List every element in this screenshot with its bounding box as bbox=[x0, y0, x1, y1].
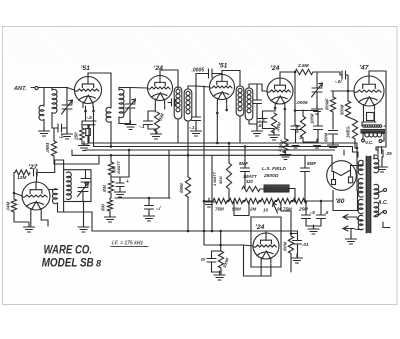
tube V5 '47 bbox=[354, 76, 384, 110]
wire 80 plate b bbox=[351, 161, 364, 177]
junction grid V5 bbox=[347, 90, 350, 93]
wire grid row left bbox=[14, 173, 15, 198]
coil L2 primary bbox=[106, 107, 111, 122]
svg-text:/00M: /00M bbox=[179, 183, 184, 194]
resistor 1MEG bbox=[352, 120, 357, 139]
svg-text:’51: ’51 bbox=[218, 63, 228, 70]
wire AVC top bbox=[53, 128, 55, 141]
svg-text:ANT.: ANT. bbox=[13, 86, 27, 92]
svg-text:8MF: 8MF bbox=[239, 161, 248, 166]
wire V4 plate bbox=[280, 72, 295, 78]
wire divider left end bbox=[204, 200, 213, 202]
wire 50M det bbox=[302, 110, 304, 116]
svg-text:2.5M: 2.5M bbox=[297, 63, 310, 69]
wire AC cord exit bbox=[383, 222, 390, 228]
wire osc varcap down bbox=[82, 192, 84, 202]
wire otp right bbox=[384, 125, 386, 127]
transformer PT core bbox=[366, 156, 371, 233]
tube V6 '27 bbox=[22, 182, 50, 214]
svg-text:-./: -./ bbox=[156, 206, 161, 212]
svg-text:.5: .5 bbox=[325, 210, 329, 215]
svg-text:-.5: -.5 bbox=[87, 115, 93, 120]
resistor 1WATT 50M bbox=[226, 163, 231, 189]
svg-text:/00M: /00M bbox=[283, 241, 288, 252]
svg-text:-.0/: -.0/ bbox=[335, 79, 342, 84]
svg-text:/00MF: /00MF bbox=[325, 98, 330, 111]
wire IF grid cap bbox=[195, 86, 197, 117]
svg-text:I.F. = 175 kHz: I.F. = 175 kHz bbox=[112, 241, 143, 247]
svg-text:’24: ’24 bbox=[154, 65, 164, 72]
filament arrow b bbox=[343, 226, 348, 231]
tube V4 '24 bbox=[267, 78, 293, 108]
wire bus B5 bbox=[89, 142, 357, 144]
coil PT sec HV b bbox=[358, 178, 363, 197]
wire IFT1 sec top bbox=[188, 86, 196, 89]
tube V2 '24 bbox=[148, 76, 173, 105]
capacitor 100M grid bbox=[329, 131, 338, 135]
wire 10M top bbox=[110, 155, 112, 162]
resistor 75M divider bbox=[213, 198, 227, 203]
ground .1 mid bbox=[144, 212, 155, 221]
wire IFT2 sec bot bbox=[249, 120, 257, 124]
wire cap bottom V1 bbox=[88, 125, 90, 143]
wire osc bottom link bbox=[58, 203, 93, 212]
capacitor box cath V5 bbox=[367, 113, 375, 121]
ground divider bbox=[204, 198, 215, 207]
ground C2 bbox=[125, 121, 136, 130]
resistor 75M divider2 bbox=[277, 198, 291, 203]
wire V2 bias bbox=[148, 111, 155, 121]
svg-text:A.C.: A.C. bbox=[377, 200, 388, 206]
wire mid rail 198 bbox=[115, 197, 170, 199]
svg-text:2M: 2M bbox=[249, 207, 257, 212]
wire V3 plate bbox=[222, 71, 240, 87]
capacitor -.1 V2 bbox=[144, 121, 153, 125]
ground det tank bbox=[312, 105, 323, 114]
svg-text:75M: 75M bbox=[215, 207, 224, 212]
ground varcap C1 bbox=[62, 130, 73, 139]
tube V7 '24 bbox=[253, 233, 279, 263]
capacitor bypass box V1 bbox=[86, 129, 91, 136]
ground det caps bbox=[312, 139, 323, 148]
filament lead b bbox=[354, 229, 363, 230]
coil osc primary bbox=[53, 189, 58, 204]
wire V7 legs bbox=[260, 263, 262, 276]
wire 8mf b bbox=[304, 155, 306, 168]
wire .0005 link bbox=[196, 73, 209, 75]
ground .25 output bbox=[377, 163, 388, 172]
ground det bypass bbox=[290, 139, 301, 148]
capacitor .0005 osc coupling bbox=[209, 69, 213, 78]
wire V6 cathode legs bbox=[30, 214, 32, 227]
svg-text:M: M bbox=[277, 207, 281, 212]
wire wiper feed bbox=[281, 204, 291, 236]
capacitor IFT1 tune bbox=[172, 99, 176, 106]
wire AVC bottom bbox=[54, 155, 99, 164]
filament arrow a bbox=[343, 215, 348, 220]
wire coupling in bbox=[340, 74, 342, 76]
coil IFT2 secondary bbox=[245, 88, 253, 120]
svg-text:MODEL SB: MODEL SB bbox=[42, 258, 94, 270]
wire bus B2 bbox=[94, 146, 353, 148]
resistor 100M V7 bbox=[288, 236, 293, 253]
variable capacitor C3 osc bbox=[78, 183, 89, 197]
wiper arrow divider bbox=[273, 203, 278, 213]
coil PT sec HV a bbox=[358, 160, 363, 175]
svg-text:.0005: .0005 bbox=[192, 68, 205, 74]
svg-text:2500Ω: 2500Ω bbox=[263, 173, 279, 179]
resistor 500M grid bbox=[345, 101, 350, 117]
wire L1 sec bottom bbox=[52, 113, 58, 129]
capacitor -.5 V4 bbox=[258, 119, 267, 123]
resistor .40M V4 bbox=[271, 113, 276, 133]
svg-text:8MF: 8MF bbox=[307, 161, 316, 166]
wire 80 base link bbox=[330, 200, 333, 202]
resistor 100M mid bbox=[185, 177, 190, 197]
coil PT prim b bbox=[374, 184, 379, 199]
resistor 2M divider bbox=[245, 198, 259, 203]
wire V4 cathode legs bbox=[274, 108, 276, 111]
svg-text:.1: .1 bbox=[59, 134, 63, 140]
junction div3 bbox=[259, 200, 262, 203]
wire bus B4 bbox=[72, 154, 332, 156]
wire V1 plate bbox=[88, 73, 111, 108]
tube V8 '80 bbox=[327, 161, 357, 191]
wire 100MF det bbox=[317, 110, 319, 126]
resistor 2.50M V4 bbox=[283, 139, 288, 153]
tube V1 '51 bbox=[75, 77, 102, 108]
svg-text:8: 8 bbox=[96, 259, 101, 269]
resistor 10M divider bbox=[261, 198, 275, 203]
ground 100M grid bbox=[328, 141, 339, 150]
ground 10M d bbox=[105, 213, 116, 222]
wire 500M riser bbox=[220, 231, 222, 251]
wire 100M V7 bbox=[290, 232, 293, 235]
svg-text:WARE CO.: WARE CO. bbox=[44, 245, 93, 257]
wire IFT2 sec top bbox=[249, 84, 257, 88]
resistor 10M d bbox=[107, 200, 112, 211]
wire 500M down bbox=[347, 91, 349, 101]
resistor .00MF grid bbox=[330, 97, 335, 112]
wire V2 bias gnd bbox=[156, 132, 158, 133]
wire .5a bbox=[305, 201, 307, 215]
wire node A bbox=[110, 175, 112, 181]
ground 2.50M bbox=[280, 151, 291, 160]
svg-text:+: + bbox=[126, 179, 129, 185]
wire IFT1 sec to grid bbox=[196, 86, 210, 87]
coil IFT2 primary bbox=[236, 86, 244, 116]
wire 10M d gnd bbox=[109, 211, 111, 216]
wire .01 avc top bbox=[212, 251, 221, 259]
wire 50M psu bbox=[228, 143, 230, 163]
svg-text:-.1: -.1 bbox=[189, 125, 195, 131]
junction div5 bbox=[291, 200, 294, 203]
coil PT sec d bbox=[358, 215, 363, 230]
wire varcap to ground bbox=[66, 109, 68, 133]
coil IFT1 primary bbox=[174, 87, 182, 119]
variable capacitor C2 bbox=[125, 99, 136, 113]
capacitor .01 V7 bbox=[293, 241, 302, 245]
AC plug bottom bbox=[384, 211, 387, 214]
svg-text:1MEG.: 1MEG. bbox=[346, 125, 351, 138]
svg-text:2WATT: 2WATT bbox=[116, 160, 121, 175]
wire V4 bias bbox=[263, 111, 276, 119]
resistor 12M grid osc bbox=[15, 170, 30, 175]
wire grid entry osc bbox=[14, 193, 23, 196]
wire PT prim top bbox=[374, 155, 378, 159]
svg-text:320: 320 bbox=[246, 179, 254, 184]
wire .00MF bbox=[332, 91, 334, 97]
resistor 500M avc bbox=[218, 251, 223, 268]
capacitor IFT2 tune bbox=[253, 100, 262, 104]
wire bus bottom bbox=[92, 230, 298, 232]
osc coil box bbox=[64, 170, 91, 202]
resistor .04M osc grid bbox=[11, 199, 16, 212]
AC plug top bbox=[384, 189, 387, 192]
svg-text:-.1: -.1 bbox=[139, 124, 145, 130]
wire otp left bbox=[361, 122, 363, 126]
svg-text:·25: ·25 bbox=[385, 151, 392, 156]
antenna terminal bbox=[35, 86, 38, 89]
wire L2 sec bottom bbox=[119, 117, 130, 124]
wire .5 rail bbox=[306, 225, 321, 227]
wire osc res bot bbox=[14, 212, 29, 222]
capacitor grid osc bbox=[34, 169, 38, 176]
variable capacitor C1 bbox=[62, 100, 73, 114]
ground V4 cathode bbox=[269, 131, 280, 140]
capacitor .1 mid bbox=[145, 206, 154, 210]
ground .5 caps bbox=[308, 225, 319, 234]
wire C2 to V2 grid bbox=[130, 87, 148, 90]
ground bottom left bbox=[214, 271, 225, 280]
wire cap .1 out bbox=[62, 127, 68, 129]
wire 8mf a bbox=[244, 147, 246, 169]
wire mid vertical c bbox=[211, 155, 213, 231]
wire divider tap box bbox=[234, 201, 249, 216]
wire choke out bbox=[289, 189, 295, 202]
wire bus bottom left leg bbox=[91, 212, 93, 231]
wire IFT2 to grid bbox=[257, 84, 267, 91]
capacitor .1 antenna bbox=[58, 124, 62, 132]
coil PT prim c bbox=[374, 202, 379, 217]
resistor 100M AVC bbox=[51, 141, 56, 156]
svg-text:/0M: /0M bbox=[101, 204, 106, 212]
ground .01 V7 bbox=[292, 254, 303, 263]
capacitor elec mid bbox=[116, 183, 124, 187]
junction div1 bbox=[227, 200, 230, 203]
capacitor .25 output bbox=[378, 147, 382, 154]
capacitor 8MF a bbox=[241, 168, 250, 172]
resistor 250 bias bbox=[80, 128, 85, 140]
wire V5 grid line bbox=[331, 90, 354, 92]
svg-text:1 WATT: 1 WATT bbox=[212, 171, 217, 186]
wire plate res out bbox=[313, 72, 340, 75]
coil osc secondary bbox=[67, 172, 72, 200]
wire det rail bbox=[295, 110, 318, 112]
wire V2 plate bbox=[160, 70, 178, 89]
wire AVC line 245 bbox=[204, 244, 244, 246]
wire plate lead osc bbox=[36, 173, 38, 183]
filament lead a bbox=[357, 218, 363, 221]
svg-text:’24: ’24 bbox=[270, 65, 280, 72]
wire V2 cathode legs bbox=[154, 105, 156, 113]
svg-text:L.S. FIELD: L.S. FIELD bbox=[262, 166, 287, 172]
wire V3 cathode legs bbox=[216, 104, 218, 144]
ground antenna coil bbox=[39, 127, 50, 136]
svg-text:.01: .01 bbox=[302, 242, 309, 248]
wire IFT2 prim bot bbox=[239, 116, 241, 143]
svg-text:’51: ’51 bbox=[81, 65, 91, 72]
wire bias left V1 bbox=[81, 121, 83, 128]
svg-text:.04M: .04M bbox=[6, 201, 11, 211]
resistor 10M 2WATT bbox=[108, 162, 113, 175]
ground V6 bbox=[24, 223, 35, 232]
svg-text:.0005: .0005 bbox=[296, 100, 308, 105]
coil IFT1 secondary bbox=[184, 89, 192, 121]
wire bias bottom V1 bbox=[82, 140, 88, 144]
ground IFT2 bbox=[252, 127, 263, 136]
capacitor -.1 IF grid bbox=[192, 117, 201, 121]
capacitor 8MF b bbox=[301, 168, 310, 172]
coil L2 secondary bbox=[119, 89, 124, 118]
wire 320 link bbox=[260, 188, 264, 190]
wire bus left hook B4 bbox=[71, 150, 73, 155]
wire osc varcap gnd bbox=[83, 202, 85, 227]
wire .1 mid bbox=[148, 198, 150, 206]
junction div4 bbox=[275, 200, 278, 203]
svg-text:-.5: -.5 bbox=[310, 210, 316, 215]
wire grid row right bbox=[37, 160, 64, 173]
wire drop B2 end bbox=[353, 147, 359, 158]
wire .01 avc bottom bbox=[212, 262, 222, 272]
wire L1 prim bottom bbox=[43, 120, 45, 131]
capacitor .5 a bbox=[302, 215, 311, 219]
resistor 320 filter bbox=[242, 186, 260, 191]
resistor 50M det bbox=[300, 116, 305, 138]
resistor 10M c bbox=[108, 181, 113, 193]
coil output primary bbox=[363, 125, 366, 128]
wire .01 V7 bbox=[291, 233, 297, 235]
capacitor 100MF det bbox=[314, 126, 323, 130]
wire coupling out bbox=[346, 75, 349, 91]
wire V5 plate bbox=[369, 71, 386, 126]
svg-text:-.5: -.5 bbox=[256, 123, 262, 129]
box V7 shield bbox=[251, 217, 281, 267]
wire 500M gnd bbox=[220, 268, 222, 274]
svg-text:/0M: /0M bbox=[102, 185, 107, 193]
capacitor -.01 coupling bbox=[342, 71, 346, 79]
svg-text:50M: 50M bbox=[232, 207, 241, 212]
svg-text:500M: 500M bbox=[340, 104, 345, 115]
wire vc right bbox=[381, 134, 384, 142]
ground osc varcap bbox=[78, 223, 89, 232]
ground elec mid bbox=[115, 188, 126, 197]
svg-text:V.C.: V.C. bbox=[365, 140, 374, 145]
capacitor det bypass bbox=[291, 126, 300, 130]
wire B2 riser V1 bbox=[93, 121, 95, 147]
svg-text:10: 10 bbox=[263, 208, 269, 213]
svg-text:.00M: .00M bbox=[45, 143, 50, 153]
coil voice coil bbox=[365, 134, 382, 138]
svg-text:12M: 12M bbox=[17, 175, 27, 181]
resistor 50M divider bbox=[229, 198, 243, 203]
wire IFT1 sec bottom bbox=[187, 121, 189, 177]
wire tank to grid bbox=[67, 88, 75, 91]
wire filament gnd bbox=[350, 229, 352, 239]
svg-text:’24: ’24 bbox=[255, 224, 265, 231]
coil PT sec c bbox=[358, 199, 363, 214]
wire V7 left drop bbox=[243, 245, 245, 276]
wire V7 plate bbox=[265, 231, 267, 233]
ground filament bbox=[346, 235, 357, 244]
wire L2 sec top bbox=[118, 88, 120, 91]
paper texture bbox=[4, 28, 395, 70]
coil PT prim a bbox=[374, 158, 379, 173]
box 80 base bbox=[333, 191, 358, 211]
svg-text:’80: ’80 bbox=[335, 198, 345, 205]
wire V5 cathode legs bbox=[363, 111, 365, 123]
wire junction vc bbox=[376, 146, 386, 148]
wire V7 grid bbox=[244, 245, 254, 246]
wire V7 bottom rail bbox=[244, 275, 272, 277]
wire mid vertical a bbox=[203, 86, 205, 245]
capacitor .0005 det tank bbox=[312, 83, 323, 97]
wire IFT1 prim bot bbox=[177, 119, 179, 143]
tube V3 '51 bbox=[210, 75, 235, 104]
wire drop B5 junction bbox=[356, 143, 358, 191]
wire .5b bbox=[320, 201, 322, 215]
capacitor osc padder bbox=[81, 179, 90, 183]
wire elec drop bbox=[120, 150, 129, 177]
ground V2 cathode bbox=[151, 130, 162, 139]
wire antenna lead bbox=[31, 87, 35, 89]
wire det tank bbox=[316, 72, 318, 88]
wire .25 gnd bbox=[381, 157, 383, 166]
wire IFT2 gnd bbox=[256, 124, 258, 130]
wire 10M mid down bbox=[110, 193, 112, 198]
choke LS field bbox=[264, 185, 289, 192]
transformer core bar bbox=[361, 130, 385, 134]
svg-text:’47: ’47 bbox=[359, 65, 370, 72]
svg-text:250: 250 bbox=[74, 132, 79, 141]
wire det bypass gnd bbox=[295, 130, 297, 143]
svg-text:50M: 50M bbox=[218, 176, 223, 184]
wire .25 output bbox=[376, 147, 378, 150]
wire grid tank bbox=[44, 88, 67, 106]
wire V4 gnd bbox=[273, 133, 275, 134]
wire drop B3 end bbox=[343, 150, 345, 155]
svg-text:0/: 0/ bbox=[201, 257, 206, 263]
coil L1 secondary bbox=[52, 89, 57, 113]
resistor .5M V2 bbox=[154, 112, 159, 132]
ground V1 cathode bbox=[79, 142, 90, 151]
capacitor .5 b bbox=[317, 215, 326, 219]
wire L2 prim bottom bbox=[110, 122, 112, 147]
wire mid vertical x169 bbox=[168, 150, 170, 198]
wire 100M mid bbox=[187, 197, 189, 231]
resistor 2.5M plate load bbox=[295, 69, 313, 74]
capacitor .01 avc bbox=[207, 259, 216, 263]
svg-text:100M: 100M bbox=[310, 113, 315, 124]
junction div2 bbox=[243, 200, 246, 203]
coil L1 primary bbox=[39, 105, 44, 120]
wire det plate drop bbox=[294, 72, 296, 125]
svg-text:.1: .1 bbox=[299, 135, 303, 140]
wire C2 to ground bbox=[129, 108, 131, 124]
capacitor .5 cathode V1 bbox=[82, 121, 96, 125]
resistor 25M divider bbox=[293, 198, 307, 203]
junction dot bus bbox=[187, 230, 190, 233]
